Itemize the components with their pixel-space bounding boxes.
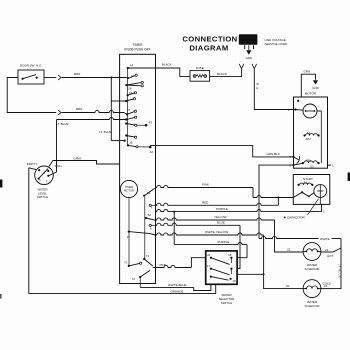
svg-text:27: 27 <box>127 108 131 112</box>
svg-text:H: H <box>256 86 258 90</box>
svg-text:GND: GND <box>246 56 252 60</box>
svg-text:HOT: HOT <box>327 254 334 258</box>
svg-text:MOTOR: MOTOR <box>305 92 317 96</box>
svg-text:PURPLE: PURPLE <box>218 240 230 244</box>
svg-text:BRN: BRN <box>76 107 82 111</box>
svg-text:WHITE-BLUE: WHITE-BLUE <box>168 283 187 287</box>
svg-text:17: 17 <box>207 264 211 268</box>
svg-text:DIAGRAM: DIAGRAM <box>189 44 228 53</box>
svg-text:DOOR SW. N.O.: DOOR SW. N.O. <box>20 64 43 68</box>
svg-text:COLD: COLD <box>323 282 332 286</box>
svg-text:22: 22 <box>287 248 291 252</box>
svg-text:GRN-BLK: GRN-BLK <box>267 152 280 156</box>
svg-text:SOLENOID: SOLENOID <box>305 267 320 271</box>
svg-text:SOLENOID: SOLENOID <box>305 304 320 308</box>
svg-text:52: 52 <box>148 213 152 217</box>
svg-text:PINK: PINK <box>202 183 209 187</box>
svg-text:20: 20 <box>286 284 290 288</box>
svg-text:✱ CAPACITOR: ✱ CAPACITOR <box>284 216 306 220</box>
svg-text:GRN: GRN <box>304 69 311 73</box>
svg-text:6PH: 6PH <box>306 137 311 141</box>
svg-text:ORANGE: ORANGE <box>171 290 184 294</box>
svg-text:GRAY: GRAY <box>74 157 82 161</box>
svg-text:CONNECTION: CONNECTION <box>182 35 237 44</box>
svg-text:RED: RED <box>202 200 209 204</box>
svg-text:EMPTY: EMPTY <box>27 162 37 166</box>
svg-text:42: 42 <box>150 150 154 154</box>
svg-text:19: 19 <box>232 279 236 283</box>
svg-text:WHITE-YELLOW: WHITE-YELLOW <box>205 230 228 234</box>
svg-text:28: 28 <box>128 87 132 91</box>
svg-text:L2: L2 <box>130 63 134 67</box>
svg-text:BLACK: BLACK <box>162 63 172 67</box>
svg-text:21: 21 <box>325 248 329 252</box>
svg-text:L T - B L U E: L T - B L U E <box>338 264 341 278</box>
svg-text:WHITE: WHITE <box>320 237 330 241</box>
svg-text:BLACK: BLACK <box>217 72 227 76</box>
svg-text:FUSE: FUSE <box>196 66 204 70</box>
svg-text:WP: WP <box>245 39 251 43</box>
svg-text:SWITCH: SWITCH <box>37 195 48 199</box>
svg-text:PURPLE: PURPLE <box>216 207 228 211</box>
svg-text:LT. BLUE: LT. BLUE <box>99 130 111 134</box>
svg-text:SERVICE CORD: SERVICE CORD <box>265 42 289 46</box>
svg-text:43: 43 <box>207 253 211 257</box>
svg-text:72: 72 <box>132 277 136 281</box>
svg-text:YELLOW: YELLOW <box>214 215 227 219</box>
svg-text:PINK: PINK <box>160 263 167 267</box>
svg-text:BLUE: BLUE <box>217 220 225 224</box>
svg-text:18: 18 <box>228 253 232 257</box>
svg-text:TIMER: TIMER <box>125 185 133 189</box>
svg-text:4PH: 4PH <box>306 158 311 162</box>
svg-text:71: 71 <box>146 254 150 258</box>
svg-text:LT. BLUE: LT. BLUE <box>56 122 68 126</box>
svg-text:MOTOR: MOTOR <box>124 189 134 193</box>
svg-text:70: 70 <box>124 260 128 264</box>
svg-text:43: 43 <box>149 121 153 125</box>
svg-text:KNOB-PUSH OFF: KNOB-PUSH OFF <box>124 48 150 52</box>
svg-text:SWITCH: SWITCH <box>221 301 232 305</box>
svg-text:TIMER: TIMER <box>133 43 144 47</box>
svg-text:GND: GND <box>312 86 318 90</box>
svg-text:15: 15 <box>129 141 133 145</box>
svg-text:BRN: BRN <box>74 72 80 76</box>
svg-text:P: P <box>288 108 290 112</box>
